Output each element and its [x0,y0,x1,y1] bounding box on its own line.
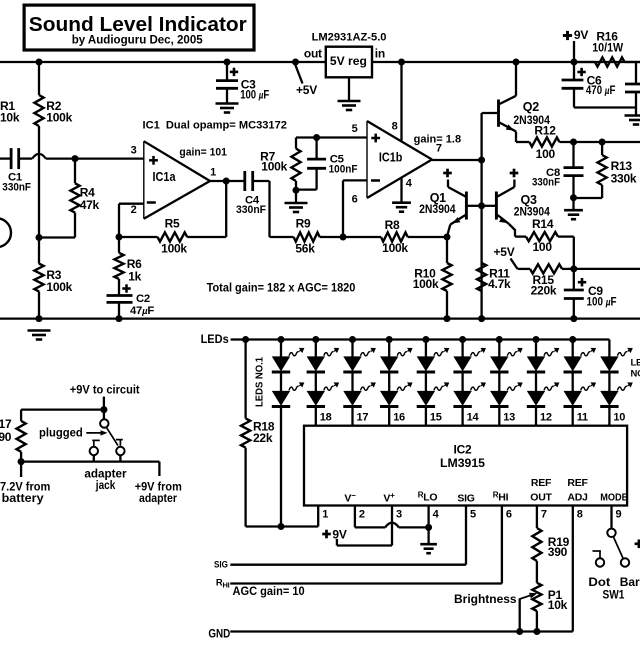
svg-text:9V: 9V [574,28,588,42]
svg-text:Brightness: Brightness [454,592,517,606]
svg-text:100 µF: 100 µF [240,87,269,101]
svg-text:18: 18 [320,412,332,424]
svg-text:2: 2 [359,508,365,520]
svg-text:47k: 47k [80,198,100,212]
svg-text:9V: 9V [332,527,346,541]
svg-text:LM2931AZ-5.0: LM2931AZ-5.0 [312,32,387,44]
svg-text:390: 390 [0,430,12,444]
svg-text:1: 1 [210,167,216,179]
svg-text:jack: jack [95,478,116,492]
svg-text:LEDs: LEDs [201,332,229,346]
svg-text:gain= 1.8: gain= 1.8 [414,133,462,145]
svg-text:OUT: OUT [530,491,552,503]
svg-text:Q3: Q3 [521,193,537,207]
svg-text:11: 11 [577,412,588,424]
svg-text:Total gain= 182 x AGC= 1820: Total gain= 182 x AGC= 1820 [207,280,356,294]
svg-text:100k: 100k [261,159,287,173]
svg-text:5V reg: 5V reg [330,54,367,68]
svg-text:4.7k: 4.7k [488,277,511,291]
svg-text:battery: battery [2,491,44,505]
svg-text:plugged: plugged [39,426,83,440]
svg-text:7: 7 [541,508,547,520]
svg-text:+5V: +5V [494,245,515,259]
svg-text:R12: R12 [534,124,556,138]
svg-text:10k: 10k [548,598,568,612]
svg-text:10/1W: 10/1W [592,41,624,55]
svg-text:out: out [304,47,322,61]
svg-text:LM3915: LM3915 [440,456,485,470]
svg-text:GND: GND [208,626,230,640]
svg-text:17: 17 [357,412,369,424]
svg-text:100 µF: 100 µF [587,295,617,309]
svg-text:+5V: +5V [296,83,317,97]
svg-text:by Audioguru Dec, 2005: by Audioguru Dec, 2005 [72,32,203,46]
svg-text:adapter: adapter [139,491,177,505]
svg-text:+9V to circuit: +9V to circuit [70,382,140,396]
svg-text:MODE: MODE [600,491,628,503]
svg-text:220k: 220k [531,284,557,298]
svg-text:IC1 Dual opamp= MC33172: IC1 Dual opamp= MC33172 [143,120,287,132]
svg-text:2N3904: 2N3904 [419,204,456,216]
svg-text:3: 3 [131,145,137,157]
svg-text:REF: REF [567,477,588,489]
svg-text:100k: 100k [413,277,439,291]
svg-text:AGC gain= 10: AGC gain= 10 [233,584,305,598]
svg-text:22k: 22k [253,431,273,445]
svg-text:15: 15 [430,412,442,424]
svg-text:Q1: Q1 [430,191,446,205]
svg-text:330k: 330k [611,171,637,185]
svg-text:100k: 100k [46,111,72,125]
svg-text:8: 8 [392,121,398,133]
svg-text:SW1: SW1 [603,587,625,601]
svg-text:3: 3 [396,508,402,520]
svg-text:10: 10 [613,412,625,424]
svg-text:ADJ: ADJ [567,491,588,503]
svg-text:10k: 10k [0,111,20,125]
svg-text:5: 5 [470,508,476,520]
svg-text:1: 1 [322,508,328,520]
svg-text:100nF: 100nF [329,163,358,175]
svg-text:R9: R9 [296,217,311,231]
svg-text:6: 6 [352,194,358,206]
svg-text:R14: R14 [532,217,554,231]
svg-text:REF: REF [531,477,552,489]
svg-text:470 µF: 470 µF [586,83,616,97]
svg-text:SIG: SIG [457,492,474,504]
svg-text:14: 14 [467,412,480,424]
svg-text:5: 5 [352,123,358,135]
svg-text:56k: 56k [295,242,315,256]
svg-text:13: 13 [503,412,515,424]
svg-text:330nF: 330nF [532,177,560,189]
svg-text:IC2: IC2 [454,443,473,457]
svg-text:100: 100 [533,240,553,254]
svg-text:1k: 1k [128,269,141,283]
svg-text:SIG: SIG [214,560,228,571]
svg-text:100k: 100k [46,280,72,294]
svg-text:12: 12 [540,412,552,424]
svg-text:Q2: Q2 [523,100,539,114]
svg-text:16: 16 [393,412,405,424]
svg-text:330nF: 330nF [236,204,266,216]
svg-text:C2: C2 [136,293,150,305]
svg-text:NO.: NO. [631,368,640,379]
svg-text:IC1b: IC1b [379,151,403,165]
svg-text:R8: R8 [385,218,400,232]
svg-text:6: 6 [506,508,512,520]
svg-text:IC1a: IC1a [153,170,177,184]
svg-text:R17: R17 [0,417,12,431]
svg-text:100: 100 [536,147,556,161]
svg-text:R5: R5 [165,217,180,231]
svg-text:47µF: 47µF [130,305,154,317]
svg-text:100k: 100k [161,242,187,256]
svg-text:gain= 101: gain= 101 [179,147,227,159]
svg-text:390: 390 [548,545,568,559]
svg-text:2: 2 [131,204,137,216]
svg-text:8: 8 [577,508,583,520]
svg-text:330nF: 330nF [2,181,31,193]
svg-text:in: in [375,46,385,60]
svg-text:LED: LED [631,358,640,369]
svg-text:LEDS NO.1: LEDS NO.1 [254,357,265,407]
svg-text:9: 9 [616,508,622,520]
svg-text:100k: 100k [382,241,408,255]
